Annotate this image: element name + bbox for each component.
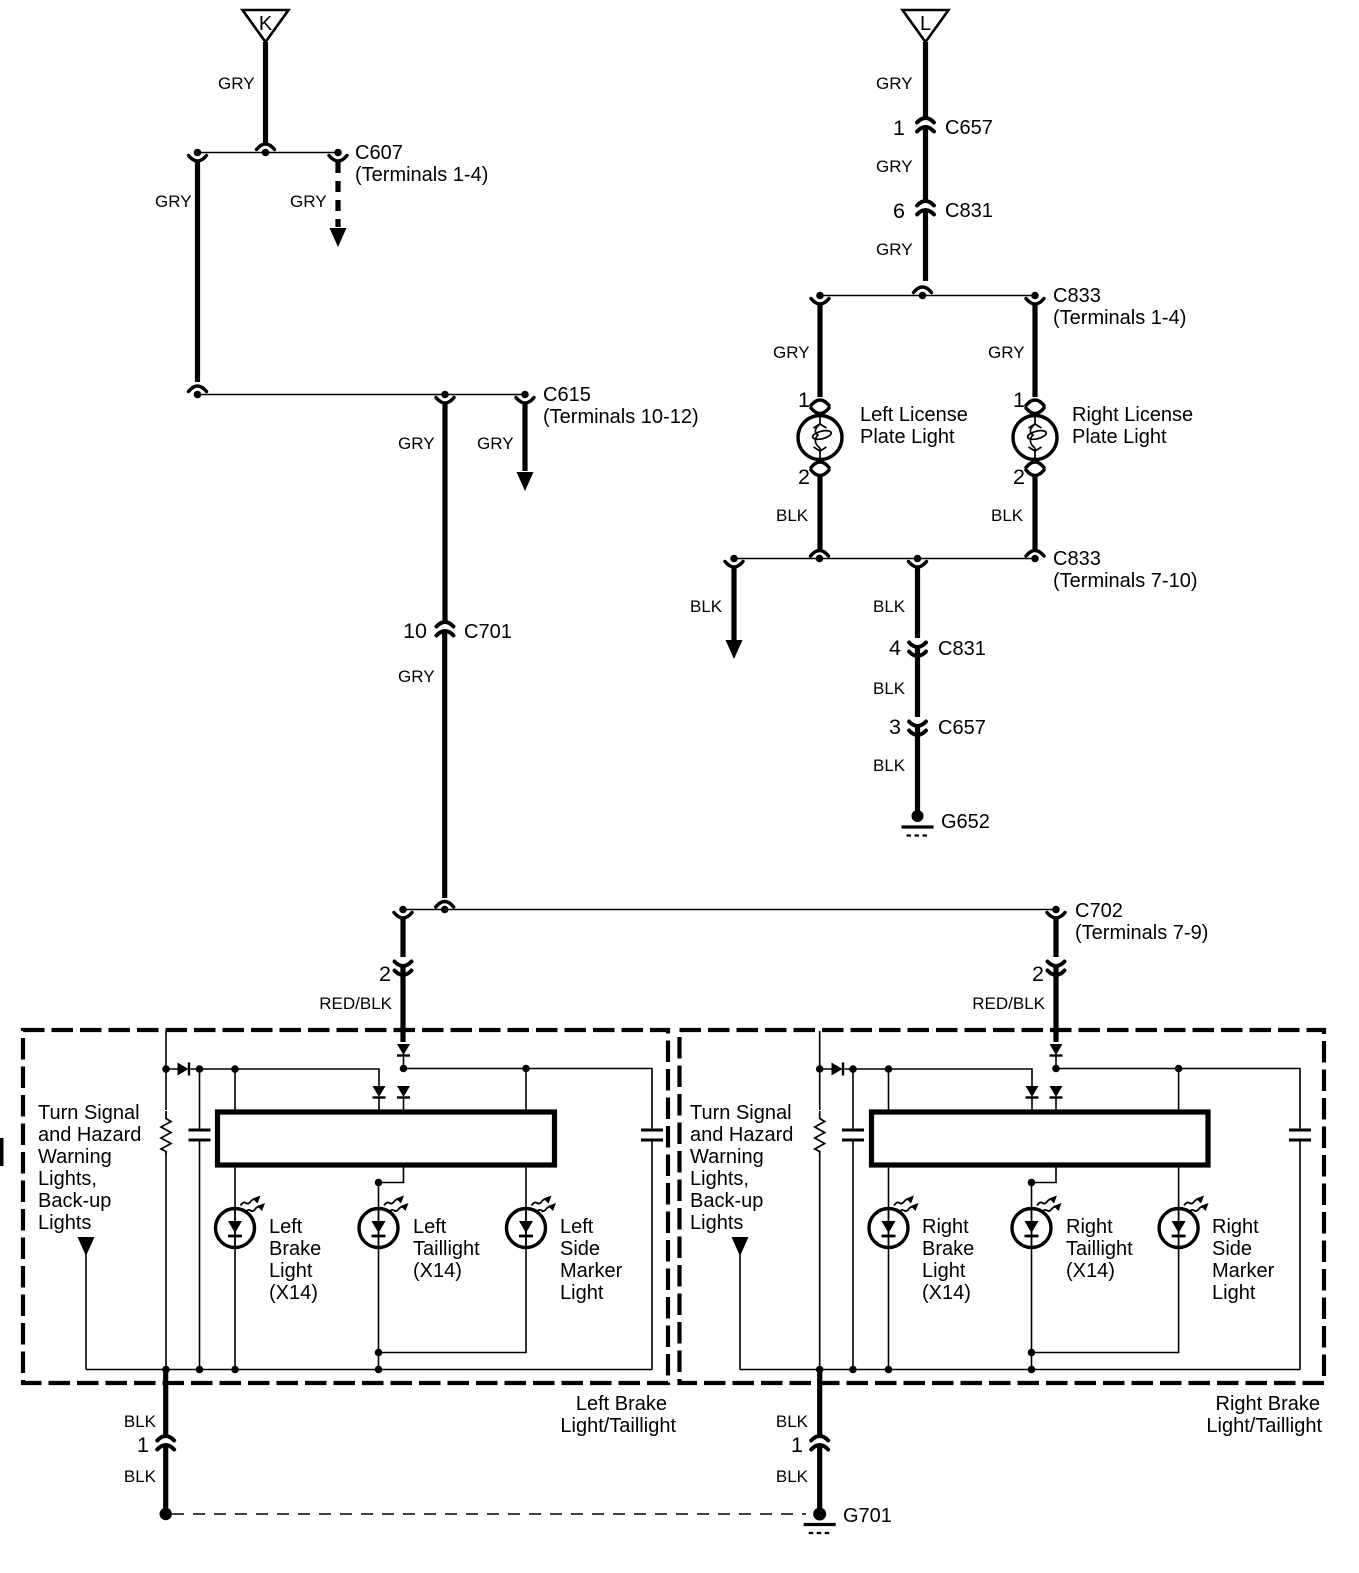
wire GRY between C657 and C831 — [923, 128, 928, 200]
arrowhead dashed branch — [330, 228, 347, 247]
connector pin 1 (left exit, in-line) — [157, 1436, 174, 1450]
svg-text:1: 1 — [791, 1433, 803, 1457]
svg-text:Lights,: Lights, — [690, 1168, 749, 1190]
label Left Brake Light (X14) — [269, 1216, 321, 1304]
capacitor C-left (right box) — [852, 1069, 854, 1130]
node side-marker tap (left) — [522, 1065, 530, 1073]
node at 1035,295.5 — [1031, 292, 1039, 300]
node side-marker tap (right) — [1175, 1065, 1183, 1073]
svg-text:G701: G701 — [843, 1505, 892, 1527]
svg-text:1: 1 — [1013, 388, 1025, 412]
wire ground rail (right box) — [740, 1369, 1300, 1371]
diode D2 entry to relay (left) — [397, 1086, 410, 1098]
svg-text:BLK: BLK — [873, 756, 906, 775]
wire brake tap to relay top (right) — [888, 1069, 890, 1112]
svg-text:RED/BLK: RED/BLK — [319, 994, 392, 1013]
wire GRY down to C702 bus — [442, 632, 447, 898]
arrowhead from turn-signal circuit (left) — [78, 1237, 95, 1256]
wire BLK down to C831 — [915, 567, 920, 638]
svg-text:C833: C833 — [1053, 285, 1101, 307]
node entry junction (right) — [1052, 1065, 1060, 1073]
wire relay to side marker lamp (left) — [379, 1165, 527, 1353]
wire BLK down to ground — [915, 727, 920, 811]
node entry junction (left) — [400, 1065, 408, 1073]
ground G652 — [902, 810, 934, 836]
lamp Left Brake Light X14 — [216, 1196, 266, 1248]
svg-text:GRY: GRY — [155, 192, 192, 211]
wire BLK from left lamp down — [817, 476, 822, 550]
node at 917.5,558.5 — [914, 555, 922, 563]
svg-text:2: 2 — [798, 465, 810, 489]
node side marker to taillight (left) — [375, 1349, 383, 1357]
svg-text:C657: C657 — [945, 117, 993, 139]
wire resistor to rail (right) — [819, 1152, 821, 1370]
wire GRY arrow branch — [522, 403, 527, 471]
svg-text:Warning: Warning — [38, 1146, 112, 1168]
ground G701 — [804, 1508, 836, 1534]
svg-text:GRY: GRY — [218, 74, 255, 93]
connector end arc at C615 bus — [189, 386, 207, 392]
svg-text:Light: Light — [922, 1260, 966, 1282]
svg-text:and Hazard: and Hazard — [38, 1124, 141, 1146]
wire entry to junction (right) — [1055, 1056, 1057, 1069]
label Turn Signal and Hazard Warning Lights, Back-up Lights (left) — [38, 1102, 141, 1234]
connector pair at left lamp pin 2 — [811, 462, 829, 468]
wire entry junction to right cap (left box top-right net) — [404, 1069, 653, 1130]
svg-text:Left Brake: Left Brake — [576, 1393, 667, 1415]
relay box U2 (right) — [872, 1112, 1209, 1165]
svg-text:2: 2 — [1013, 465, 1025, 489]
svg-text:GRY: GRY — [988, 343, 1025, 362]
arrowhead BLK stub — [726, 640, 743, 659]
diode D3 horizontal (left) — [178, 1063, 190, 1076]
svg-text:(Terminals 1-4): (Terminals 1-4) — [1053, 307, 1186, 329]
lamp Left License Plate Light — [798, 416, 842, 460]
connector start arc left lamp branch — [811, 299, 829, 305]
wire brake tap to relay top (left) — [234, 1069, 236, 1112]
svg-text:2: 2 — [379, 962, 391, 986]
svg-text:(X14): (X14) — [1066, 1260, 1115, 1282]
wire taillight vertical (left) — [378, 1183, 380, 1370]
connector C831 pin 4 (in-line) — [909, 643, 926, 657]
node at 445,394.5 — [441, 391, 449, 399]
svg-text:Light: Light — [269, 1260, 313, 1282]
wire relay to left brake lamp — [234, 1165, 236, 1370]
connector pair at right lamp pin 2 — [1026, 462, 1044, 468]
connector start arc right lamp branch — [1026, 299, 1044, 305]
node at 338,152.5 — [334, 149, 342, 157]
connector C831 pin 6 (in-line) — [917, 201, 934, 215]
wire GRY from L down — [923, 42, 928, 117]
svg-text:BLK: BLK — [873, 597, 906, 616]
svg-text:Right: Right — [1066, 1216, 1113, 1238]
svg-text:Brake: Brake — [269, 1238, 321, 1260]
svg-text:Lights: Lights — [690, 1212, 743, 1234]
wire top-left net horizontal (right) — [820, 1069, 1032, 1086]
connector C701 (in-line) — [437, 622, 454, 636]
lamp Left Taillight X14 — [359, 1196, 409, 1248]
wire RED/BLK right into box — [1053, 967, 1058, 1042]
wire right cap to rail (right box) — [1299, 1140, 1301, 1370]
node taillight jog (right) — [1028, 1179, 1036, 1187]
wire BLK between C831 and C657 — [915, 648, 920, 717]
node brake tap (left) — [231, 1065, 239, 1073]
svg-text:Light: Light — [560, 1282, 604, 1304]
svg-text:BLK: BLK — [776, 1467, 809, 1486]
svg-text:Side: Side — [1212, 1238, 1252, 1260]
wire C702 bus (horizontal) — [403, 909, 1056, 911]
node at 197.5,394.5 — [194, 391, 202, 399]
node taillight jog (left) — [375, 1179, 383, 1187]
connector start arc right RED/BLK feed — [1047, 913, 1065, 919]
connector C657 pin 1 (in-line) — [917, 118, 934, 132]
node at 197.5,152.5 — [194, 149, 202, 157]
wire left cap to rail (right box) — [852, 1140, 854, 1370]
svg-text:Left License: Left License — [860, 404, 968, 426]
wire top-left net horizontal (left) — [166, 1069, 379, 1086]
svg-text:GRY: GRY — [398, 434, 435, 453]
svg-text:4: 4 — [889, 636, 901, 660]
wire BLK stub down — [731, 567, 736, 640]
svg-text:Lights: Lights — [38, 1212, 91, 1234]
wire D4 to relay top (right) — [1031, 1098, 1033, 1112]
svg-text:BLK: BLK — [873, 679, 906, 698]
svg-text:GRY: GRY — [876, 157, 913, 176]
label Left Side Marker Light — [560, 1216, 623, 1304]
node at 922.5,295.5 — [919, 292, 927, 300]
svg-text:Back-up: Back-up — [690, 1190, 763, 1212]
svg-text:BLK: BLK — [124, 1412, 157, 1431]
wire GRY from K down — [263, 42, 268, 145]
wire BLK from right lamp down — [1032, 476, 1037, 550]
svg-text:3: 3 — [889, 715, 901, 739]
svg-text:Lights,: Lights, — [38, 1168, 97, 1190]
svg-text:Right: Right — [922, 1216, 969, 1238]
svg-text:C607: C607 — [355, 142, 403, 164]
svg-text:and Hazard: and Hazard — [690, 1124, 793, 1146]
node rail-exit (right) — [816, 1366, 824, 1374]
svg-text:Turn Signal: Turn Signal — [38, 1102, 140, 1124]
diode D2 entry to relay (right) — [1050, 1086, 1063, 1098]
lamp Right Taillight X14 — [1012, 1196, 1062, 1248]
node at 734,558.5 — [730, 555, 738, 563]
diode D4 to relay (left) — [373, 1086, 386, 1098]
connector end arc at C833 bus 7-10 — [811, 551, 829, 557]
wire GRY to right license lamp — [1032, 304, 1037, 397]
connector end arc right lamp at bus — [1026, 551, 1044, 557]
wire from arrow to ground rail (left) — [85, 1254, 87, 1370]
wire D2 to relay top (right) — [1055, 1098, 1057, 1112]
node side marker to taillight (right) — [1028, 1349, 1036, 1357]
connector start arc left RED/BLK feed — [394, 913, 412, 919]
node at 525,394.5 — [521, 391, 529, 399]
svg-text:Left: Left — [413, 1216, 447, 1238]
svg-text:BLK: BLK — [991, 506, 1024, 525]
arrowhead C615 branch — [517, 472, 534, 491]
svg-text:C831: C831 — [938, 638, 986, 660]
svg-text:Taillight: Taillight — [413, 1238, 480, 1260]
label Left Taillight (X14) — [413, 1216, 480, 1282]
svg-text:C701: C701 — [464, 621, 512, 643]
lamp Right Brake Light X14 — [869, 1196, 919, 1248]
left module dashed box — [23, 1030, 668, 1383]
svg-text:Plate Light: Plate Light — [860, 426, 955, 448]
scan artifact left edge — [0, 1138, 4, 1166]
node at 820,295.5 — [816, 292, 824, 300]
svg-text:L: L — [920, 13, 931, 35]
wire from top border down to T-junction (right) — [819, 1031, 821, 1069]
svg-text:BLK: BLK — [776, 1412, 809, 1431]
wire BLK exit (left box) — [163, 1370, 168, 1437]
resistor R1 (left) — [165, 1069, 167, 1110]
svg-text:Right: Right — [1212, 1216, 1259, 1238]
node at 1035,558.5 — [1031, 555, 1039, 563]
node at 403,909.5 — [399, 906, 407, 914]
svg-text:GRY: GRY — [477, 434, 514, 453]
node at 819.5,558.5 — [816, 555, 824, 563]
arrowhead from turn-signal circuit (right) — [732, 1237, 749, 1256]
connector start arc C615 arrow branch — [516, 398, 534, 404]
node brake tap (right) — [885, 1065, 893, 1073]
svg-text:6: 6 — [893, 199, 905, 223]
svg-text:C615: C615 — [543, 384, 591, 406]
connector start arc left branch — [189, 156, 207, 162]
svg-text:Light/Taillight: Light/Taillight — [1206, 1415, 1322, 1437]
wire C615 bus (horizontal) — [198, 394, 526, 396]
svg-text:Taillight: Taillight — [1066, 1238, 1133, 1260]
svg-text:C833: C833 — [1053, 548, 1101, 570]
connector pin 1 (right exit, in-line) — [811, 1436, 828, 1450]
diode D1 on RED/BLK entry (left) — [397, 1044, 410, 1056]
connector end arc at C702 bus — [436, 902, 454, 908]
wire BLK to ground G701 (right) — [817, 1446, 822, 1508]
lamp Left Side Marker Light — [507, 1196, 557, 1248]
connector start arc main branch — [436, 398, 454, 404]
svg-text:Light: Light — [1212, 1282, 1256, 1304]
wire taillight vertical (right) — [1031, 1183, 1033, 1370]
svg-text:Warning: Warning — [690, 1146, 764, 1168]
connector start arc ground branch — [909, 562, 927, 568]
svg-text:(Terminals 7-9): (Terminals 7-9) — [1075, 922, 1208, 944]
wire D2 to relay top (left) — [403, 1098, 405, 1112]
svg-text:1: 1 — [893, 116, 905, 140]
connector C702 pin 2 right (in-line) — [1048, 962, 1065, 976]
connector K (triangle) — [243, 10, 289, 42]
wire down to connector 2 (left) — [400, 918, 405, 957]
capacitor C-right (left box) — [641, 1130, 663, 1140]
svg-text:(X14): (X14) — [269, 1282, 318, 1304]
svg-text:Right License: Right License — [1072, 404, 1193, 426]
connector start arc C607 dashed branch — [329, 156, 347, 162]
connector end arc at C607 bus — [257, 144, 275, 150]
svg-text:G652: G652 — [941, 811, 990, 833]
svg-text:BLK: BLK — [776, 506, 809, 525]
node rail-cap (left) — [196, 1366, 204, 1374]
svg-text:Left: Left — [269, 1216, 303, 1238]
wire RED/BLK left into box — [400, 967, 405, 1042]
svg-text:GRY: GRY — [290, 192, 327, 211]
connector pair at right lamp pin 1 — [1026, 400, 1044, 406]
svg-text:K: K — [259, 13, 273, 35]
label Right Brake Light (X14) — [922, 1216, 974, 1304]
label Right Taillight (X14) — [1066, 1216, 1133, 1282]
svg-text:1: 1 — [137, 1433, 149, 1457]
svg-text:Brake: Brake — [922, 1238, 974, 1260]
node rail-taillight (right) — [1028, 1366, 1036, 1374]
wire entry junction to right cap (right box top-right net) — [1056, 1069, 1300, 1130]
wire C833 bus 7-10 (horizontal) — [734, 558, 1035, 560]
node rail-exit (left) — [162, 1366, 170, 1374]
node rail-taillight (left) — [375, 1366, 383, 1374]
node at 1056,909.5 — [1052, 906, 1060, 914]
wire dashed ground link G701 — [172, 1513, 806, 1515]
relay box U1 (left) — [218, 1112, 555, 1165]
wire GRY dashed branch (goes elsewhere) — [335, 162, 340, 227]
capacitor C-left (left box) — [199, 1069, 201, 1130]
wire C833 bus 1-4 (horizontal) — [820, 295, 1035, 297]
svg-text:BLK: BLK — [124, 1467, 157, 1486]
wire C607 bus (horizontal) — [198, 152, 339, 154]
wire from arrow to ground rail (right) — [739, 1254, 741, 1370]
wire ground rail (left box) — [86, 1369, 652, 1371]
svg-text:BLK: BLK — [690, 597, 723, 616]
wire relay to side marker lamp (right) — [1032, 1165, 1179, 1353]
wire BLK exit (right box) — [817, 1370, 822, 1437]
svg-text:C657: C657 — [938, 717, 986, 739]
node at 444.7,909.5 — [441, 906, 449, 914]
wire side-marker tap to relay top (right) — [1178, 1069, 1180, 1113]
wire GRY down to C833 bus — [923, 211, 928, 281]
svg-text:Light/Taillight: Light/Taillight — [560, 1415, 676, 1437]
svg-text:Side: Side — [560, 1238, 600, 1260]
svg-text:Turn Signal: Turn Signal — [690, 1102, 792, 1124]
diode D4 to relay (right) — [1026, 1086, 1039, 1098]
wire D4 to relay top (left) — [378, 1098, 380, 1112]
capacitor C-right (right box) — [1289, 1130, 1311, 1140]
connector C702 pin 2 left (in-line) — [395, 962, 412, 976]
wire relay jog to taillight (left) — [379, 1165, 404, 1183]
diode D3 horizontal (right) — [832, 1063, 844, 1076]
connector start arc BLK stub branch — [725, 562, 743, 568]
svg-text:Marker: Marker — [560, 1260, 623, 1282]
wire down to connector 2 (right) — [1053, 918, 1058, 957]
svg-text:(Terminals 7-10): (Terminals 7-10) — [1053, 570, 1197, 592]
connector L (triangle) — [903, 10, 949, 42]
svg-text:GRY: GRY — [773, 343, 810, 362]
svg-text:Back-up: Back-up — [38, 1190, 111, 1212]
svg-text:C831: C831 — [945, 200, 993, 222]
connector end arc at C833 bus — [914, 287, 932, 293]
svg-text:(Terminals 1-4): (Terminals 1-4) — [355, 164, 488, 186]
svg-text:Left: Left — [560, 1216, 594, 1238]
svg-text:RED/BLK: RED/BLK — [972, 994, 1045, 1013]
node rail-brake (right) — [885, 1366, 893, 1374]
node at 265.5,152.5 — [262, 149, 270, 157]
connector pair at left lamp pin 1 — [811, 400, 829, 406]
svg-text:C702: C702 — [1075, 900, 1123, 922]
wire resistor to rail (left) — [165, 1152, 167, 1370]
svg-text:(X14): (X14) — [922, 1282, 971, 1304]
node rail-brake (left) — [231, 1366, 239, 1374]
lamp Right License Plate Light — [1013, 416, 1057, 460]
wire relay jog to taillight (right) — [1032, 1165, 1057, 1183]
svg-text:2: 2 — [1032, 962, 1044, 986]
wire side-marker tap to relay top (left) — [525, 1069, 527, 1113]
wire GRY left branch down — [195, 161, 200, 382]
node cap tap (left) — [196, 1065, 204, 1073]
wire GRY to left license lamp — [817, 304, 822, 397]
label Turn Signal and Hazard Warning Lights, Back-up Lights (right) — [690, 1102, 793, 1234]
wire right cap to rail (left box) — [651, 1140, 653, 1370]
wire from top border down to T-junction (left) — [165, 1031, 167, 1069]
wire relay to right brake lamp — [888, 1165, 890, 1370]
resistor R1 (right) — [819, 1069, 821, 1110]
node cap tap (right) — [849, 1065, 857, 1073]
node rail-cap (right) — [849, 1366, 857, 1374]
svg-text:Marker: Marker — [1212, 1260, 1275, 1282]
right module dashed box — [680, 1030, 1325, 1383]
svg-text:10: 10 — [403, 619, 427, 643]
wire BLK to ground node (left) — [163, 1446, 168, 1511]
svg-text:1: 1 — [798, 388, 810, 412]
diode D1 on RED/BLK entry (right) — [1050, 1044, 1063, 1056]
svg-text:Plate Light: Plate Light — [1072, 426, 1167, 448]
node ground splice (left) — [160, 1508, 172, 1520]
wire left cap to rail (left box) — [199, 1140, 201, 1370]
svg-text:(X14): (X14) — [413, 1260, 462, 1282]
svg-text:GRY: GRY — [876, 240, 913, 259]
svg-text:GRY: GRY — [876, 74, 913, 93]
svg-text:GRY: GRY — [398, 667, 435, 686]
svg-text:Right Brake: Right Brake — [1216, 1393, 1321, 1415]
wire entry to junction (left) — [403, 1056, 405, 1069]
lamp Right Side Marker Light — [1159, 1196, 1209, 1248]
connector C657 pin 3 (in-line) — [909, 722, 926, 736]
svg-text:(Terminals 10-12): (Terminals 10-12) — [543, 406, 699, 428]
label Right Side Marker Light — [1212, 1216, 1275, 1304]
node resistor junction (right) — [816, 1065, 824, 1073]
wire GRY main down to C701 — [442, 403, 447, 621]
node resistor junction (left) — [162, 1065, 170, 1073]
